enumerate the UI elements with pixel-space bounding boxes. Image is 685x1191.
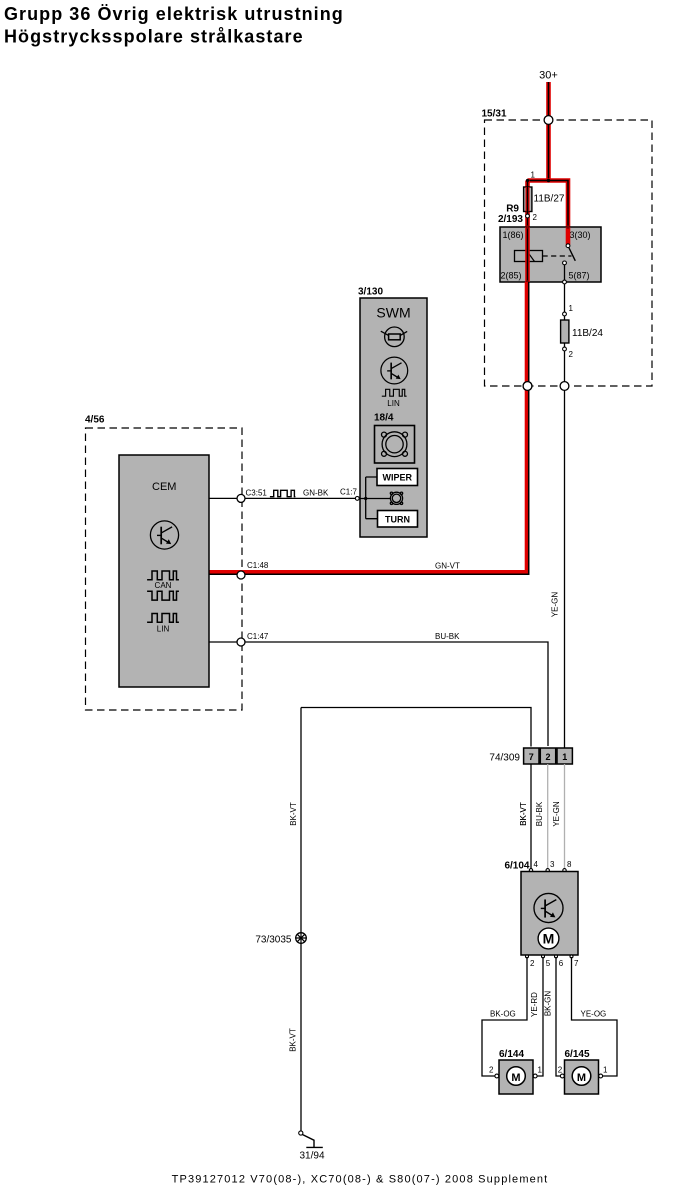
svg-text:1: 1 <box>562 752 567 762</box>
connector 74/309 <box>489 748 572 764</box>
svg-text:C1:7: C1:7 <box>340 488 357 497</box>
wire YE-GN fuse to connector 74/309 pin 1 <box>551 351 565 748</box>
svg-text:2: 2 <box>489 1066 494 1075</box>
wire 5(87) to fuse 11B/24 <box>564 284 566 314</box>
washer motor 6/144 <box>489 1049 542 1094</box>
svg-text:2: 2 <box>558 1066 563 1075</box>
module 3/130 SWM body <box>358 287 427 538</box>
pin 2 of fuse 11B/24 <box>563 347 574 359</box>
svg-text:BK-OG: BK-OG <box>490 1010 516 1019</box>
washer motor 6/145 <box>558 1049 608 1094</box>
svg-text:7: 7 <box>574 959 579 968</box>
svg-text:8: 8 <box>567 860 572 869</box>
pin 1 of fuse 11B/27 <box>526 171 536 183</box>
svg-text:YE-OG: YE-OG <box>581 1010 607 1019</box>
svg-text:CAN: CAN <box>155 581 172 590</box>
svg-text:74/309: 74/309 <box>489 753 520 764</box>
fusebox 15/31 dashed boundary <box>482 109 653 387</box>
svg-text:BU-BK: BU-BK <box>435 632 460 641</box>
svg-text:4/56: 4/56 <box>85 415 105 426</box>
svg-text:C1:47: C1:47 <box>247 632 269 641</box>
relay R9 2/193 designator <box>498 204 523 225</box>
wire YE-OG 6/104:7 to 6/145:1 <box>572 957 618 1076</box>
relay edge pin dots <box>526 225 570 284</box>
svg-text:BK-GN: BK-GN <box>543 991 552 1017</box>
transistor icon in CEM <box>150 521 178 549</box>
svg-text:4: 4 <box>534 860 539 869</box>
wire YE-RD 6/104:5 to 6/144:1 <box>530 957 543 1076</box>
transistor icon in SWM <box>381 357 408 384</box>
svg-text:7: 7 <box>529 752 534 762</box>
svg-text:30+: 30+ <box>539 70 558 82</box>
svg-text:2: 2 <box>533 213 538 222</box>
svg-text:1: 1 <box>538 1066 543 1075</box>
module 6/104 designator and top pins <box>504 860 572 872</box>
svg-text:2(85): 2(85) <box>501 271 522 281</box>
wire YE-GN 74/309:1 to 6/104:8 <box>552 764 564 868</box>
svg-text:YE-GN: YE-GN <box>552 801 561 827</box>
ground 31/94 <box>299 1131 325 1161</box>
svg-text:6/104: 6/104 <box>504 861 529 872</box>
wire CEM C3:51 to SWM C1:7 (GN-BK) <box>209 488 357 499</box>
wire BK-VT 74/309:7 to 6/104:4 <box>519 764 531 868</box>
svg-text:3(30): 3(30) <box>570 230 591 240</box>
pin 2 of fuse 11B/27 <box>526 213 538 222</box>
6/104 bottom pins <box>526 955 580 968</box>
svg-text:6: 6 <box>559 959 564 968</box>
lamp icon in SWM <box>381 327 407 347</box>
LIN bus icon in SWM <box>382 389 407 408</box>
wire 3(30) stub inside relay (red) <box>566 227 571 245</box>
svg-text:6/144: 6/144 <box>499 1049 524 1060</box>
svg-text:11B/24: 11B/24 <box>572 328 603 339</box>
svg-text:BK-VT: BK-VT <box>519 802 528 826</box>
svg-text:18/4: 18/4 <box>374 413 394 424</box>
svg-text:LIN: LIN <box>387 399 400 408</box>
fuse 11B/24 <box>561 316 604 347</box>
svg-text:15/31: 15/31 <box>482 109 507 120</box>
WIPER function box <box>377 469 418 486</box>
node circle 15/31 bottom left <box>523 382 532 391</box>
wire BU-BK 74/309:2 to 6/104:3 <box>535 764 548 868</box>
svg-text:BK-VT: BK-VT <box>289 1028 298 1052</box>
svg-text:5: 5 <box>546 959 551 968</box>
svg-text:2: 2 <box>530 959 535 968</box>
svg-text:1(86): 1(86) <box>503 230 524 240</box>
wire GN-VT relay to CEM C1:48 (red) <box>209 282 529 574</box>
module 6/104 body <box>521 872 578 956</box>
CAN bus icon <box>147 571 179 600</box>
svg-text:C1:48: C1:48 <box>247 561 269 570</box>
ecu 4/56 dashed boundary <box>85 415 242 711</box>
wire BU-BK CEM C1:47 to connector 74/309 pin 2 <box>209 632 548 746</box>
connector pin C3:51 <box>237 494 245 502</box>
transistor icon in 6/104 <box>534 893 563 922</box>
svg-text:M: M <box>577 1072 586 1084</box>
wires inside SWM linking C1:7 to WIPER/washer/TURN <box>359 477 391 519</box>
redraw border circles over red wire <box>523 382 532 391</box>
relay contact switch <box>563 244 576 282</box>
ecu CEM body <box>119 455 209 687</box>
wire junction bar to fuse and relay (red) <box>528 181 569 228</box>
motor M in 6/104 <box>538 928 559 949</box>
TURN function box <box>378 511 418 528</box>
svg-text:BK-VT: BK-VT <box>289 802 298 826</box>
fuse 11B/27 <box>524 187 565 212</box>
svg-text:YE-GN: YE-GN <box>551 592 560 618</box>
svg-text:1: 1 <box>531 171 536 180</box>
svg-text:GN-BK: GN-BK <box>303 489 329 498</box>
pin 1 of fuse 11B/24 <box>563 304 574 316</box>
svg-text:LIN: LIN <box>157 625 170 634</box>
svg-text:WIPER: WIPER <box>383 473 413 483</box>
connector pin C1:47 <box>237 638 245 646</box>
svg-text:3: 3 <box>550 860 555 869</box>
LIN bus icon in CEM <box>147 614 179 634</box>
svg-text:GN-VT: GN-VT <box>435 562 460 571</box>
connector pin C1:7 <box>355 497 359 501</box>
svg-text:Grupp 36 Övrig elektrisk utrus: Grupp 36 Övrig elektrisk utrustning <box>4 4 344 24</box>
svg-text:Högstrycksspolare strålkastare: Högstrycksspolare strålkastare <box>4 27 304 47</box>
svg-text:11B/27: 11B/27 <box>534 194 565 205</box>
wire BK-GN 6/104:6 to 6/145:2 <box>543 957 560 1076</box>
wire BK-VT upper run to connector 74/309 pin 7 <box>289 708 531 826</box>
svg-text:CEM: CEM <box>152 481 176 493</box>
svg-text:1: 1 <box>569 304 574 313</box>
svg-text:SWM: SWM <box>376 305 410 321</box>
svg-text:73/3035: 73/3035 <box>255 934 292 945</box>
svg-text:TURN: TURN <box>385 515 410 525</box>
washer pump icon <box>390 492 402 504</box>
svg-text:31/94: 31/94 <box>300 1150 325 1161</box>
svg-text:M: M <box>511 1072 520 1084</box>
svg-text:6/145: 6/145 <box>565 1049 590 1060</box>
svg-text:2: 2 <box>569 350 574 359</box>
svg-text:TP39127012 V70(08-), XC70(08-): TP39127012 V70(08-), XC70(08-) & S80(07-… <box>172 1174 549 1186</box>
junction dot <box>547 179 550 182</box>
splice 73/3035 <box>255 933 306 946</box>
relay R9 body <box>500 227 601 282</box>
relay coil-contact dashed link <box>543 255 572 257</box>
svg-text:YE-RD: YE-RD <box>530 992 539 1017</box>
svg-text:2/193: 2/193 <box>498 214 523 225</box>
svg-text:2: 2 <box>545 752 550 762</box>
wire fuse branch (red) <box>525 181 530 228</box>
pump unit 18/4 <box>374 413 415 464</box>
node circle 15/31 bottom right <box>560 382 569 391</box>
svg-text:1: 1 <box>603 1066 608 1075</box>
connector pin C1:48 <box>237 561 269 579</box>
svg-text:5(87): 5(87) <box>569 271 590 281</box>
svg-text:C3:51: C3:51 <box>246 489 268 498</box>
wire BK-VT left vertical to ground <box>289 708 302 1132</box>
relay coil <box>515 251 543 262</box>
wire coil feed through relay (red) <box>525 227 530 282</box>
node circle at 15/31 top border <box>544 116 553 125</box>
svg-text:3/130: 3/130 <box>358 287 383 298</box>
wire 30+ feed (red) <box>546 82 551 181</box>
wire BK-OG 6/104:2 to 6/144:2 <box>482 957 527 1076</box>
svg-text:M: M <box>543 930 555 946</box>
svg-text:BU-BK: BU-BK <box>535 801 544 826</box>
